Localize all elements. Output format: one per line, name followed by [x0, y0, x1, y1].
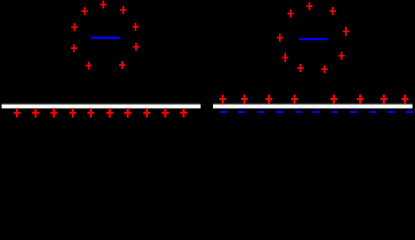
surface positive charge 3 above right plate [265, 95, 272, 104]
surface positive charge 2 above right plate [241, 95, 248, 104]
induced negative charge 1 below right plate [220, 111, 227, 113]
positive ion 7 of right ring (lower right) [338, 52, 344, 60]
positive ion 8 of left ring (bottom left) [85, 62, 91, 70]
surface positive charge 4 below left plate [69, 108, 76, 117]
surface positive charge 6 below left plate [106, 108, 113, 117]
positive ion 4 of left ring (left) [71, 23, 77, 31]
surface positive charge 4 above right plate [291, 95, 298, 104]
induced negative charge 4 below right plate [276, 111, 283, 113]
surface positive charge 3 below left plate [50, 108, 57, 117]
induced negative charge 10 below right plate [387, 111, 394, 113]
surface positive charge 6 above right plate [357, 95, 364, 104]
surface positive charge 2 below left plate [32, 108, 39, 117]
charged rod of left diagram [91, 37, 119, 40]
induced negative charge 7 below right plate [331, 111, 338, 113]
positive ion 6 of left ring (lower left) [71, 44, 77, 52]
surface positive charge 1 below left plate [14, 108, 21, 117]
positive ion 9 of left ring (bottom right) [119, 61, 125, 69]
positive ion 8 of right ring (bottom left) [297, 64, 303, 72]
induced negative charge 6 below right plate [313, 111, 320, 113]
induced negative charge 9 below right plate [369, 111, 376, 113]
induced negative charge 3 below right plate [257, 111, 264, 113]
induced negative charge 2 below right plate [238, 111, 245, 113]
surface positive charge 8 above right plate [401, 95, 408, 104]
positive ion 4 of right ring (left) [277, 34, 283, 42]
positive ion 6 of right ring (lower left) [282, 53, 288, 62]
surface positive charge 1 above right plate [219, 95, 226, 104]
surface positive charge 8 below left plate [143, 108, 150, 117]
surface positive charge 5 above right plate [330, 95, 337, 104]
surface positive charge 7 above right plate [380, 95, 387, 104]
positive ion 3 of right ring [330, 7, 336, 15]
charged rod of right diagram [299, 38, 327, 40]
surface positive charge 9 below left plate [162, 108, 169, 117]
right plate (conductor surface) [213, 103, 413, 109]
positive ion 5 of right ring (right) [343, 27, 349, 36]
positive ion 1 of right ring [287, 10, 293, 18]
positive ion 2 of right ring (top) [306, 2, 312, 10]
positive ion 3 of left ring [120, 6, 126, 14]
positive ion 9 of right ring (bottom right) [321, 65, 327, 73]
surface positive charge 10 below left plate [180, 108, 187, 117]
left plate (conductor surface) [2, 103, 201, 109]
positive ion 5 of left ring (right) [132, 23, 138, 31]
induced negative charge 5 below right plate [295, 111, 302, 113]
positive ion 7 of left ring (lower right) [133, 43, 139, 51]
positive ion 1 of left ring [81, 7, 87, 15]
surface positive charge 7 below left plate [124, 108, 131, 117]
positive ion 2 of left ring (top) [100, 1, 106, 9]
induced negative charge 11 below right plate [406, 111, 413, 113]
induced negative charge 8 below right plate [350, 111, 357, 113]
surface positive charge 5 below left plate [87, 108, 94, 117]
